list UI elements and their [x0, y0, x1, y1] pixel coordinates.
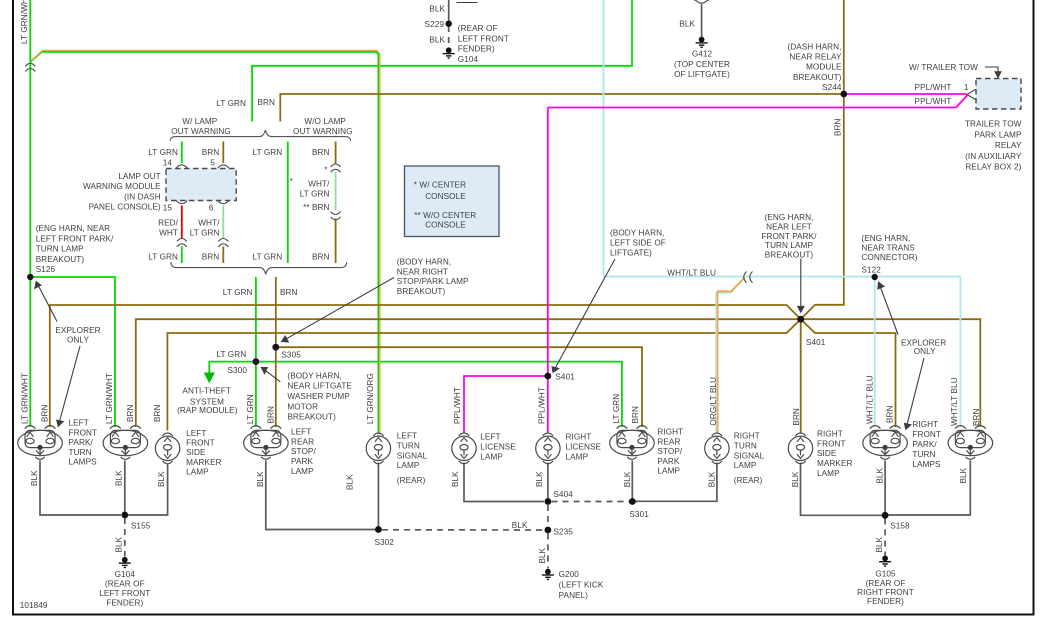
connector pair bottom of w/o-warning column	[331, 212, 341, 220]
svg-text:WHT/LT BLU: WHT/LT BLU	[950, 377, 959, 426]
SPLICE-DOTS	[27, 21, 888, 534]
svg-text:BRN: BRN	[153, 404, 162, 422]
arrow washer-pump text to S300	[262, 368, 281, 382]
svg-text:LEFT: LEFT	[186, 429, 206, 438]
wire BLK right turn signal drop to S301	[636, 463, 717, 502]
svg-text:LT GRN: LT GRN	[253, 253, 283, 262]
arrow explorer-only-left to S126	[35, 282, 57, 322]
connector module pin15	[176, 201, 187, 204]
ground G200	[542, 569, 554, 580]
svg-text:LAMP: LAMP	[480, 452, 503, 461]
node S300	[253, 358, 260, 365]
svg-text:CONSOLE: CONSOLE	[425, 221, 466, 230]
wire BLK dashed S155 to G104	[124, 518, 126, 557]
wire LT GRN/ORG green part to left turn signal lamp	[31, 52, 379, 433]
CONNECTOR SYMBOLS	[25, 0, 975, 283]
svg-text:S126: S126	[36, 265, 56, 274]
svg-text:BLK: BLK	[115, 536, 124, 552]
svg-text:(IN AUXILIARY: (IN AUXILIARY	[965, 152, 1022, 161]
arrow w/trailer-tow to relay box	[985, 67, 1001, 78]
svg-text:S300: S300	[228, 366, 248, 375]
wire BLK RF side marker drop to S158	[801, 463, 883, 516]
svg-text:LAMP: LAMP	[291, 467, 314, 476]
svg-text:LAMP: LAMP	[566, 452, 589, 461]
legend W/ CENTER CONSOLE box	[405, 166, 500, 237]
svg-text:LAMP: LAMP	[734, 461, 757, 470]
svg-text:S401: S401	[806, 338, 826, 347]
svg-text:CONNECTOR): CONNECTOR)	[861, 253, 917, 262]
svg-text:FRONT: FRONT	[69, 428, 98, 437]
svg-text:BREAKOUT): BREAKOUT)	[287, 413, 336, 422]
svg-text:LT GRN: LT GRN	[223, 288, 253, 297]
wire LT GRN below pin15 connector	[181, 247, 183, 264]
svg-text:PANEL CONSOLE): PANEL CONSOLE)	[89, 203, 161, 212]
svg-text:SIDE: SIDE	[186, 448, 206, 457]
lamp LEFT FRONT PARK/TURN LAMPS 1	[18, 426, 63, 460]
svg-text:BLK: BLK	[679, 20, 695, 29]
svg-text:RIGHT: RIGHT	[817, 430, 843, 439]
svg-text:G105: G105	[875, 569, 896, 578]
wire BRN module pin5 input	[222, 142, 224, 164]
wire WHT/LT BLU vertical from top	[603, 0, 605, 277]
node S404	[545, 498, 552, 505]
connector inline on LT GRN/WHT at top left	[25, 63, 35, 71]
svg-text:LEFT: LEFT	[397, 432, 417, 441]
svg-text:LT GRN: LT GRN	[246, 394, 255, 424]
svg-text:PPL/WHT: PPL/WHT	[453, 387, 462, 424]
svg-text:LT GRN: LT GRN	[612, 394, 621, 424]
svg-text:BRN: BRN	[631, 406, 640, 424]
svg-text:RELAY: RELAY	[995, 141, 1022, 150]
ground G412	[696, 37, 708, 48]
lamp RIGHT FRONT SIDE MARKER LAMP	[788, 433, 812, 464]
lamp RIGHT LICENSE LAMP	[536, 433, 560, 464]
node S302	[375, 526, 382, 533]
svg-text:(DASH HARN,: (DASH HARN,	[787, 42, 841, 51]
svg-text:RIGHT: RIGHT	[566, 432, 592, 441]
svg-text:BREAKOUT): BREAKOUT)	[793, 73, 842, 82]
wire BLK LF lamp1 drop to S155	[40, 461, 121, 516]
WIRES-MAGENTA	[464, 94, 968, 433]
svg-text:BLK: BLK	[535, 471, 544, 487]
svg-text:BLK: BLK	[959, 467, 968, 483]
svg-text:LT GRN: LT GRN	[216, 350, 246, 359]
svg-text:BLK: BLK	[875, 536, 884, 552]
node S401 main	[797, 316, 804, 323]
svg-text:BLK: BLK	[708, 471, 717, 487]
svg-text:LT GRN: LT GRN	[216, 99, 246, 108]
wire PPL/WHT S401 to right license lamp	[547, 376, 549, 433]
node S235	[545, 527, 552, 534]
ground G104 bottom	[119, 557, 131, 568]
svg-text:OUT WARNING: OUT WARNING	[293, 127, 353, 136]
svg-text:SIDE: SIDE	[817, 449, 837, 458]
wire BRN below pin6 connector	[222, 247, 224, 264]
svg-text:ONLY: ONLY	[67, 335, 89, 344]
svg-text:MOTOR: MOTOR	[287, 402, 318, 411]
svg-text:FRONT: FRONT	[912, 430, 941, 439]
WIRES-CYAN	[604, 0, 961, 427]
wire BLK to G412	[701, 4, 703, 39]
svg-text:S404: S404	[553, 490, 573, 499]
svg-text:NEAR LEFT: NEAR LEFT	[766, 223, 812, 232]
svg-text:S229: S229	[425, 20, 445, 29]
svg-text:BLK: BLK	[30, 470, 39, 486]
wire RED/WHT module pin15 output	[181, 206, 183, 239]
node S229	[446, 21, 452, 27]
svg-text:LAMPS: LAMPS	[69, 458, 98, 467]
connector pair below pin15 RED/WHT to LT GRN	[177, 239, 187, 247]
svg-text:RIGHT: RIGHT	[734, 432, 760, 441]
arrow explorer-only-right to RF lamp1	[905, 358, 925, 429]
wire LT GRN w/o-warning bypass column	[287, 142, 289, 264]
wire BRN feed from module area to S244 and down to S401 node	[280, 94, 844, 122]
svg-text:STOP/: STOP/	[657, 447, 682, 456]
wire BLK dashed S302 to S235	[382, 529, 544, 531]
wire BLK dashed S229 to G104	[448, 26, 450, 48]
connector fork at top of G412 wire	[694, 0, 708, 3]
svg-text:SIGNAL: SIGNAL	[734, 451, 765, 460]
svg-text:TURN: TURN	[912, 450, 935, 459]
svg-text:ONLY: ONLY	[914, 347, 936, 356]
svg-text:WHT/LT BLU: WHT/LT BLU	[667, 269, 716, 278]
connector module pin5	[218, 165, 229, 168]
svg-text:FRONT: FRONT	[186, 439, 215, 448]
svg-text:LAMPS: LAMPS	[912, 460, 941, 469]
svg-text:RIGHT FRONT: RIGHT FRONT	[857, 588, 914, 597]
arrow anti-theft green	[205, 373, 214, 382]
connector module pin6	[218, 201, 229, 204]
arrow body-harn-right-stop text to S305	[282, 278, 394, 343]
svg-text:LT GRN/WHT: LT GRN/WHT	[21, 373, 30, 424]
svg-text:WARNING MODULE: WARNING MODULE	[83, 182, 161, 191]
svg-text:BRN: BRN	[257, 98, 275, 107]
relay TRAILER TOW PARK LAMP RELAY box	[976, 79, 1021, 110]
svg-text:BLK: BLK	[115, 470, 124, 486]
svg-text:LAMP: LAMP	[397, 461, 420, 470]
svg-text:S235: S235	[553, 528, 573, 537]
wire BLK right license drop to S404	[547, 463, 549, 502]
svg-text:RED/: RED/	[158, 218, 179, 227]
wire BLK LF lamp2 drop to S155	[124, 461, 126, 516]
svg-text:* W/ CENTER: * W/ CENTER	[414, 181, 466, 190]
svg-text:LT GRN: LT GRN	[253, 148, 283, 157]
stub underlined label cut at top above S229	[457, 2, 478, 4]
svg-text:RELAY BOX 2): RELAY BOX 2)	[965, 163, 1021, 172]
svg-text:LIFTGATE): LIFTGATE)	[610, 248, 652, 257]
svg-text:LAMP: LAMP	[817, 469, 840, 478]
svg-text:** BRN: ** BRN	[303, 203, 329, 212]
wire LT GRN/WHT left vertical through S126 to LF lamp1	[29, 0, 31, 427]
svg-text:BRN: BRN	[126, 404, 135, 422]
svg-text:OF LIFTGATE): OF LIFTGATE)	[674, 70, 730, 79]
connector module pin14	[176, 165, 187, 168]
node S126	[27, 274, 33, 280]
svg-text:(BODY HARN,: (BODY HARN,	[610, 228, 664, 237]
BRACES	[170, 130, 351, 274]
wire BLK dashed S235 to G200	[547, 534, 549, 569]
svg-text:PARK: PARK	[291, 457, 313, 466]
wire WHT/LT BLU horizontal to RF lamp2	[604, 277, 961, 428]
svg-text:PANEL): PANEL)	[559, 591, 589, 600]
svg-text:(BODY HARN,: (BODY HARN,	[287, 372, 341, 381]
svg-text:FENDER): FENDER)	[867, 597, 904, 606]
op-module LAMP OUT WARNING MODULE box	[166, 169, 236, 201]
wire BLK LF side marker drop to S155	[128, 464, 168, 515]
svg-text:BRN: BRN	[202, 253, 220, 262]
svg-text:WASHER PUMP: WASHER PUMP	[287, 392, 350, 401]
svg-text:BRN: BRN	[312, 148, 330, 157]
WIRES-GREEN	[30, 0, 632, 433]
wire WHT/LT GRN center-console segment right column	[335, 172, 337, 210]
svg-text:BLK: BLK	[346, 474, 355, 490]
svg-text:(ENG HARN,: (ENG HARN,	[764, 213, 813, 222]
GROUND SYMBOLS	[119, 37, 891, 580]
svg-text:FRONT PARK/: FRONT PARK/	[761, 232, 817, 241]
arrow explorer-only-left to LF lamp1 BRN terminal	[57, 346, 80, 426]
svg-text:ORG/LT BLU: ORG/LT BLU	[709, 377, 718, 426]
wire BLK RF lamp1 drop to S158	[884, 461, 886, 516]
svg-text:PPL/WHT: PPL/WHT	[915, 97, 952, 106]
svg-text:LEFT: LEFT	[69, 419, 89, 428]
svg-text:WHT/: WHT/	[308, 180, 330, 189]
wire LT GRN S300 left branch to anti-theft arrow	[209, 362, 256, 373]
lamp RIGHT FRONT PARK/TURN LAMPS 1	[863, 426, 908, 460]
svg-text:REAR: REAR	[657, 437, 680, 446]
brace lower lamp-out-warning group	[171, 262, 347, 274]
wire S126 branch to LF lamp2	[30, 277, 115, 427]
svg-text:PARK LAMP: PARK LAMP	[975, 130, 1022, 139]
svg-text:14: 14	[163, 159, 173, 168]
svg-text:S401: S401	[555, 372, 575, 381]
wire BLK left license drop to S404	[464, 463, 544, 502]
svg-text:EXPLORER: EXPLORER	[55, 326, 100, 335]
svg-text:LICENSE: LICENSE	[566, 442, 602, 451]
svg-text:FENDER): FENDER)	[458, 45, 495, 54]
svg-text:BLK: BLK	[429, 4, 445, 13]
svg-text:TURN: TURN	[69, 448, 92, 457]
wire BRN w/o-warning column lower	[335, 219, 337, 264]
svg-text:15: 15	[163, 203, 173, 212]
wire BLK S301 up to right rear stop/park lamp	[631, 461, 633, 502]
node S122	[872, 274, 878, 280]
svg-text:(ENG HARN,: (ENG HARN,	[861, 234, 910, 243]
wire LT GRN module pin14 input	[181, 142, 183, 164]
svg-text:BLK: BLK	[256, 471, 265, 487]
svg-text:G104: G104	[115, 570, 136, 579]
wire WHT/LT BLU S122 drop to RF lamp1	[874, 277, 876, 428]
connector inline (( on WHT/LT BLU near right turn signal	[744, 272, 753, 283]
svg-text:BLK: BLK	[157, 471, 166, 487]
wire BRN bus y319 from LF lamp2 through S401 to RF lamp2	[136, 319, 981, 427]
svg-text:BREAKOUT): BREAKOUT)	[397, 287, 446, 296]
svg-text:LAMP OUT: LAMP OUT	[118, 172, 160, 181]
svg-text:PARK/: PARK/	[69, 438, 94, 447]
svg-text:LT GRN/WHT: LT GRN/WHT	[105, 373, 114, 424]
node S158	[882, 512, 889, 519]
svg-text:LAMP: LAMP	[186, 468, 209, 477]
svg-text:LT GRN: LT GRN	[190, 228, 220, 237]
wire ORG overlay of LT GRN/ORG pair	[32, 50, 380, 432]
WIRES-BROWN	[50, 0, 981, 433]
svg-text:BRN: BRN	[972, 408, 981, 426]
svg-text:BRN: BRN	[312, 253, 330, 262]
svg-text:S155: S155	[131, 521, 151, 530]
svg-text:(BODY HARN,: (BODY HARN,	[397, 258, 451, 267]
connector angle at relay pin 1	[967, 90, 976, 100]
svg-text:BRN: BRN	[834, 118, 843, 136]
wire WHT/LT GRN module pin6 output	[222, 206, 224, 239]
wire BLK left rear lamp drop to S302	[266, 461, 375, 530]
svg-text:FRONT: FRONT	[817, 439, 846, 448]
svg-text:(REAR OF: (REAR OF	[866, 579, 906, 588]
svg-text:NEAR LIFTGATE: NEAR LIFTGATE	[287, 382, 352, 391]
svg-text:WHT: WHT	[159, 228, 178, 237]
svg-text:BLK: BLK	[876, 467, 885, 483]
wire PPL/WHT S244 to relay pin 1	[847, 93, 967, 95]
svg-text:LT GRN: LT GRN	[148, 253, 178, 262]
svg-text:5: 5	[210, 159, 215, 168]
svg-text:BRN: BRN	[280, 288, 298, 297]
svg-text:BRN: BRN	[202, 148, 220, 157]
wire ORG/LT BLU to right turn signal lamp (ORG)	[718, 278, 745, 433]
svg-text:W/ TRAILER TOW: W/ TRAILER TOW	[909, 63, 978, 72]
svg-text:(REAR OF: (REAR OF	[105, 580, 145, 589]
ground G104 top (rear of left front fender)	[443, 47, 455, 58]
wire PPL/WHT vertical down to S401 splice	[547, 108, 549, 377]
svg-text:LEFT FRONT: LEFT FRONT	[458, 34, 509, 43]
wire BRN S305 right branch to right rear stop/park lamp	[276, 347, 642, 427]
svg-text:(REAR): (REAR)	[734, 476, 763, 485]
svg-text:LICENSE: LICENSE	[480, 442, 516, 451]
svg-text:NEAR TRANS: NEAR TRANS	[861, 244, 915, 253]
svg-text:W/O LAMP: W/O LAMP	[304, 117, 346, 126]
svg-text:(REAR OF: (REAR OF	[458, 24, 498, 33]
svg-text:NEAR RELAY: NEAR RELAY	[789, 53, 842, 62]
arrow explorer-only-right to S122	[878, 282, 898, 334]
svg-text:LEFT SIDE OF: LEFT SIDE OF	[610, 238, 666, 247]
wire BRN bus y305 from LF lamp1 to S401 node	[50, 305, 801, 427]
svg-text:** W/O CENTER: ** W/O CENTER	[414, 211, 476, 220]
svg-text:TURN LAMP: TURN LAMP	[765, 241, 813, 250]
svg-text:S305: S305	[281, 351, 301, 360]
wire BLK dashed S404 to S301	[552, 501, 630, 503]
svg-text:W/ LAMP: W/ LAMP	[182, 117, 218, 126]
ARROWS	[35, 67, 1001, 429]
svg-text:BREAKOUT): BREAKOUT)	[765, 250, 814, 259]
svg-text:TRAILER TOW: TRAILER TOW	[965, 120, 1022, 129]
svg-text:NEAR RIGHT: NEAR RIGHT	[397, 267, 448, 276]
node S155	[121, 512, 128, 519]
svg-text:LT GRN/ORG: LT GRN/ORG	[366, 373, 375, 424]
wire BLK left turn signal drop to S302	[377, 463, 379, 530]
svg-text:G200: G200	[559, 570, 580, 579]
svg-text:S302: S302	[375, 538, 395, 547]
wire PPL/WHT S401 to left license lamp	[464, 376, 548, 433]
lamp LEFT FRONT PARK/TURN LAMPS 2	[103, 426, 148, 460]
svg-text:RIGHT: RIGHT	[912, 420, 938, 429]
arrow liftgate text to S401 splice	[552, 259, 615, 372]
node S244	[840, 91, 847, 98]
svg-text:G104: G104	[458, 55, 479, 64]
wire BLK dashed S404 down to S235	[547, 505, 549, 527]
svg-text:LEFT: LEFT	[291, 428, 311, 437]
wire BRN w/o-warning column upper	[335, 142, 337, 165]
svg-text:S244: S244	[822, 83, 842, 92]
wire BLK dashed S158 to G105	[884, 519, 886, 556]
svg-text:SIGNAL: SIGNAL	[397, 451, 428, 460]
connector pair top of w/o-warning column	[331, 164, 341, 172]
svg-text:ANTI-THEFT: ANTI-THEFT	[182, 387, 231, 396]
lamp LEFT LICENSE LAMP	[452, 433, 476, 464]
ground G105	[879, 556, 891, 567]
svg-text:BLK: BLK	[429, 35, 445, 44]
svg-text:(RAP MODULE): (RAP MODULE)	[177, 406, 238, 415]
lamp LEFT TURN SIGNAL LAMP (REAR)	[366, 433, 390, 464]
svg-text:PARK: PARK	[657, 457, 679, 466]
svg-text:STOP/: STOP/	[291, 447, 316, 456]
wire BRN S401 node to RF lamp1	[801, 319, 896, 427]
svg-text:OUT WARNING: OUT WARNING	[171, 127, 231, 136]
wire BLK to S229	[448, 0, 450, 24]
svg-text:S158: S158	[890, 522, 910, 531]
svg-text:BLK: BLK	[451, 471, 460, 487]
svg-text:BRN: BRN	[886, 405, 895, 423]
svg-text:(TOP CENTER: (TOP CENTER	[674, 60, 730, 69]
lamp LEFT REAR STOP/PARK LAMP	[244, 426, 289, 460]
svg-text:G412: G412	[692, 50, 713, 59]
svg-text:PARK/: PARK/	[912, 440, 937, 449]
wire ORG/LT BLU to right turn signal lamp (LT BLU companion)	[716, 279, 743, 432]
lamp RIGHT FRONT PARK/TURN LAMPS 2	[948, 426, 993, 460]
svg-text:LEFT FRONT: LEFT FRONT	[99, 589, 150, 598]
svg-text:(IN DASH: (IN DASH	[124, 192, 161, 201]
svg-text:101849: 101849	[20, 601, 48, 610]
svg-text:WHT/: WHT/	[198, 218, 220, 227]
svg-text:WHT/LT BLU: WHT/LT BLU	[866, 375, 875, 424]
svg-text:TURN: TURN	[734, 442, 757, 451]
wire LT GRN brace to S300 down to left rear stop/park lamp	[255, 277, 257, 427]
wire BRN S401 node down to RF side marker lamp	[800, 319, 802, 432]
svg-text:BLK: BLK	[538, 547, 547, 563]
wire PPL/WHT lower run to relay	[548, 95, 968, 108]
svg-text:LEFT: LEFT	[480, 432, 500, 441]
svg-text:RIGHT: RIGHT	[657, 428, 683, 437]
arrow eng-harn text down to S401 node	[798, 259, 804, 313]
svg-text:LEFT FRONT PARK/: LEFT FRONT PARK/	[36, 234, 114, 243]
node S401 splice license lamps	[544, 373, 551, 380]
wire BRN bus y333 from LF side marker to S401 node	[167, 319, 800, 430]
node S305	[272, 344, 279, 351]
svg-text:STOP/PARK LAMP: STOP/PARK LAMP	[397, 277, 469, 286]
svg-text:(LEFT KICK: (LEFT KICK	[559, 581, 604, 590]
svg-text:LAMP: LAMP	[657, 467, 680, 476]
svg-text:PPL/WHT: PPL/WHT	[915, 83, 952, 92]
svg-text:REAR: REAR	[291, 437, 314, 446]
svg-text:TURN LAMP: TURN LAMP	[36, 245, 84, 254]
lamp LEFT FRONT SIDE MARKER LAMP	[155, 433, 179, 464]
brace upper lamp-out-warning group	[170, 130, 351, 141]
svg-text:TURN: TURN	[397, 442, 420, 451]
svg-text:BLK: BLK	[791, 471, 800, 487]
wire LT GRN S300 right branch to right rear stop/park lamp	[256, 362, 622, 427]
svg-text:MARKER: MARKER	[817, 459, 853, 468]
svg-text:BRN: BRN	[267, 406, 276, 424]
svg-text:PPL/WHT: PPL/WHT	[538, 387, 547, 424]
svg-text:MARKER: MARKER	[186, 458, 222, 467]
svg-text:FENDER): FENDER)	[106, 598, 143, 607]
svg-text:BRN: BRN	[792, 408, 801, 426]
